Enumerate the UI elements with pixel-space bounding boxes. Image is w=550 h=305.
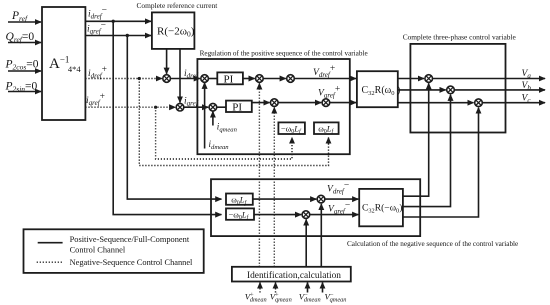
wire dotted branch i_dref plus down right and up into w0Lf reg	[139, 79, 328, 166]
junction dot branch i_dref plus	[138, 77, 141, 80]
svg-text:PI: PI	[224, 73, 234, 85]
wire post-PI q to second sum	[278, 102, 321, 104]
junction dot branch i_dref minus	[112, 20, 115, 23]
wire solid V-dmean input	[307, 283, 309, 293]
wire PI d output	[243, 78, 255, 80]
svg-text:Complete three-phase control v: Complete three-phase control variable	[403, 33, 517, 42]
wire solid riser to negative q sum	[305, 219, 307, 266]
wire i_qmean stub	[212, 111, 214, 125]
wire C32R output b	[398, 89, 446, 91]
svg-text:PI: PI	[232, 101, 242, 113]
wire output V_a	[432, 78, 545, 80]
block -w0Lf regulation	[278, 122, 305, 135]
summing junction d second	[287, 75, 295, 83]
wire dotted branch i_qref plus down right and up into -w0Lf reg	[156, 107, 292, 159]
legend dotted sample	[37, 261, 63, 263]
summing junction merge q	[176, 103, 184, 111]
junction dot branch i_qref minus	[126, 34, 129, 37]
wire R output d drop	[166, 49, 168, 74]
block w0Lf bottom	[226, 194, 253, 207]
summing junction post-PI d	[256, 75, 264, 83]
wire V_dref minus to C32R negative	[325, 198, 359, 200]
wire input Q_ref arrow	[8, 42, 41, 44]
wire branch i_dref minus down and right to -w0Lf bottom	[113, 21, 221, 214]
wire negative output c riser	[403, 108, 479, 218]
summing junction phase b	[447, 86, 455, 94]
legend solid sample	[38, 242, 63, 244]
wire V_dref plus to C32R	[294, 78, 356, 80]
wire reg d junction to PI	[208, 78, 217, 80]
svg-text:Identification,calculation: Identification,calculation	[247, 270, 341, 281]
svg-text:Negative-Sequence Control Chan: Negative-Sequence Control Channel	[70, 258, 193, 267]
wire C32R output a	[398, 78, 424, 80]
junction dot branch i_qref plus	[154, 106, 157, 109]
summing junction negative d	[317, 195, 325, 203]
block R(-2w0)	[152, 12, 195, 49]
wire input P_2sin arrow	[8, 91, 41, 93]
wire i_dmean stub	[204, 83, 206, 149]
summing junction phase c	[475, 99, 483, 107]
summing junction reg d input	[201, 75, 209, 83]
wire solid V-qmean input	[322, 283, 324, 293]
wire output V_b	[454, 89, 545, 91]
wire dotted i_qref plus to merge junction	[85, 106, 175, 108]
wire i_dref to regulation input	[170, 78, 200, 80]
svg-text:C32R(ω0 ): C32R(ω0 )	[362, 85, 401, 97]
wire V_qref minus to C32R negative	[310, 214, 359, 216]
wire dotted riser to post-PI d sum	[258, 83, 260, 266]
block C32R(w0)	[357, 71, 400, 107]
wire C32R output c	[398, 102, 474, 104]
summing junction merge d	[163, 75, 171, 83]
wire -w0Lf bottom output to sum	[254, 214, 301, 216]
block C32R(-w0)	[359, 189, 403, 226]
wire output V_c	[482, 102, 545, 104]
block PI d-axis	[217, 72, 243, 85]
wire solid riser to negative d sum	[320, 204, 322, 267]
wire w0Lf bottom output to sum	[253, 198, 316, 200]
wire dotted V+dmean input	[259, 283, 261, 293]
summing junction phase a	[425, 75, 433, 83]
summing junction post-PI q	[271, 99, 279, 107]
wire branch i_qref minus down and right to w0Lf bottom	[127, 36, 221, 200]
summing junction q second	[322, 99, 330, 107]
block w0Lf regulation	[314, 122, 339, 135]
wire dotted V+qmean input	[275, 283, 277, 293]
wire dotted riser to post-PI q sum	[273, 107, 275, 266]
wire PI q output	[252, 102, 270, 104]
wire post-PI d to second sum	[263, 78, 286, 80]
wire i_qref to regulation input	[184, 106, 209, 108]
wire i_qref minus to R block	[85, 35, 151, 37]
wire input P_2cos arrow	[8, 70, 41, 72]
wire R output q drop	[179, 49, 181, 103]
wire input P_ref arrow	[8, 21, 41, 23]
wire dotted i_dref plus to merge junction	[85, 78, 162, 80]
wire reg q junction to PI	[217, 106, 227, 108]
svg-text:Positive-Sequence/Full-Compone: Positive-Sequence/Full-Component	[70, 235, 190, 244]
box complete three-phase	[410, 44, 505, 133]
svg-text:Calculation of the negative se: Calculation of the negative sequence of …	[347, 240, 518, 248]
block identification calculation	[232, 267, 351, 282]
box legend	[24, 229, 204, 273]
wire i_dref minus to R block	[85, 20, 151, 22]
svg-text:Complete reference current: Complete reference current	[137, 1, 219, 10]
block -w0Lf bottom	[226, 208, 254, 221]
svg-text:Regulation of the positive seq: Regulation of the positive sequence of t…	[200, 50, 368, 58]
svg-text:Control Channel: Control Channel	[70, 246, 126, 255]
wire negative output a riser	[403, 83, 429, 196]
box regulation of positive sequence	[197, 59, 349, 154]
wire V_qref plus to C32R	[330, 102, 357, 104]
block A inverse 4*4	[42, 7, 85, 120]
block PI q-axis	[226, 101, 252, 114]
wire negative output b riser	[403, 95, 451, 207]
summing junction negative q	[302, 211, 310, 219]
summing junction reg q input	[209, 103, 217, 111]
box calculation of negative sequence	[211, 179, 420, 236]
